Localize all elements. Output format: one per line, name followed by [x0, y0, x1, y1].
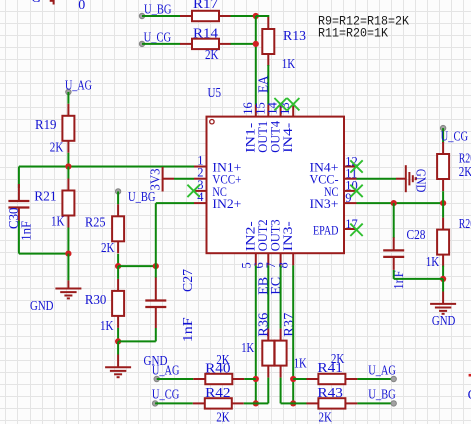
pin name IN1+: [212, 159, 241, 174]
net label 0: [78, 0, 85, 12]
label R14: [193, 25, 218, 40]
resistor R17: [180, 11, 231, 21]
pin 6 stub: [267, 253, 269, 265]
label R41: [317, 360, 343, 375]
junction node E: [440, 276, 446, 282]
wire R21 to rail: [67, 228, 69, 254]
pin number 8: [277, 262, 291, 268]
wire pin5 down: [255, 265, 257, 379]
pin name IN4+: [310, 159, 339, 174]
partial wire at right edge row1: [469, 374, 471, 377]
pin number 6: [252, 262, 266, 268]
label R19: [35, 117, 57, 132]
pin name IN3-: [280, 221, 295, 251]
wire C27 to node D row: [155, 328, 157, 341]
svg-text:R14: R14: [193, 25, 218, 40]
port U_BG right dot: [391, 401, 396, 406]
resistor R42: [193, 398, 244, 408]
wire 3V3 to pin2: [174, 178, 194, 180]
svg-text:1K: 1K: [426, 254, 440, 269]
wire pin11 to GND3: [357, 178, 397, 180]
wire node C down to R30: [117, 266, 119, 279]
pin number 4: [197, 190, 204, 204]
net label U_BG mid: [128, 189, 156, 204]
wire row pin1: [19, 166, 194, 168]
net label EC: [268, 277, 283, 295]
wire pin7 to R37: [280, 265, 282, 328]
svg-text:1K: 1K: [100, 318, 114, 333]
stem GND2: [117, 355, 119, 368]
wire pin5 col rows: [255, 379, 257, 403]
no-connect X pin 13: [287, 98, 299, 110]
wire U_CG down: [442, 128, 444, 143]
wire pin4 horizontal: [156, 202, 194, 204]
note R9=R12=R18=2K: [318, 13, 409, 28]
pin name NC: [324, 184, 339, 199]
junction pin9 C28: [391, 200, 397, 206]
svg-text:R43: R43: [317, 385, 343, 400]
port U_AG right dot: [391, 376, 396, 381]
pin number 13: [278, 102, 292, 115]
junction R19 row1: [65, 163, 71, 169]
stem GND3: [396, 178, 406, 180]
port U_CG top right dot: [440, 125, 445, 130]
resistor R41: [306, 374, 357, 384]
svg-text:2K: 2K: [205, 47, 219, 62]
net label U_AG right: [368, 362, 396, 377]
pin 15 stub: [267, 105, 269, 117]
value 2K of R14: [205, 47, 219, 62]
pin name EPAD: [313, 223, 339, 238]
pin number 11: [345, 167, 357, 181]
pin name OUT1: [255, 121, 270, 153]
wire R40 to row1 node: [244, 378, 256, 380]
value 1K of R22: [426, 254, 440, 269]
junction pin9 right: [440, 200, 446, 206]
wire pin6 to R36: [267, 265, 269, 328]
value 1K of R36: [241, 340, 254, 355]
pin name VCC+: [212, 172, 241, 187]
label GND (left): [30, 298, 54, 313]
pin number 7: [264, 262, 278, 268]
svg-text:R11=R20=1K: R11=R20=1K: [318, 25, 388, 40]
net label U_AG bottom: [152, 362, 180, 377]
pin number 2: [197, 166, 203, 180]
power port 3V3: [163, 167, 174, 192]
wire row2 left segment: [256, 402, 268, 404]
value 1nF of C28: [391, 270, 406, 289]
net label U_CG bottom: [152, 387, 180, 402]
no-connect X pin 12: [350, 160, 362, 172]
wire R30 to node D: [117, 328, 119, 342]
resistor R36: [262, 329, 274, 378]
svg-text:U_BG: U_BG: [144, 2, 172, 17]
pin 1 stub: [194, 166, 207, 168]
pin name VCC-: [310, 172, 339, 187]
port U_CG dot: [139, 41, 144, 46]
wire row2 right segment: [281, 402, 294, 404]
net label EB: [256, 277, 271, 295]
pin name OUT4: [267, 120, 282, 152]
svg-text:G: G: [31, 0, 41, 5]
value 2K of R19: [50, 139, 64, 154]
net label U_CG: [144, 29, 172, 44]
svg-text:R21: R21: [34, 188, 57, 203]
pin name IN2-: [243, 221, 258, 251]
svg-text:IN3-: IN3-: [280, 221, 295, 251]
pin number 3: [197, 178, 203, 192]
wire U_CG to R14: [142, 43, 180, 45]
label R22 clipped: [459, 216, 471, 231]
svg-text:4: 4: [197, 190, 204, 204]
capacitor C28: [383, 237, 404, 270]
partial net label (clipped at top): [31, 0, 41, 5]
wire row1 node to R41: [293, 378, 306, 380]
label R13: [283, 28, 306, 43]
ground GND4: [430, 304, 456, 314]
svg-text:2K: 2K: [459, 164, 471, 179]
value 2K of R40: [216, 352, 230, 367]
wire row2 node to R43: [293, 402, 306, 404]
svg-text:U_AG: U_AG: [65, 78, 92, 93]
svg-text:R17: R17: [193, 0, 218, 11]
svg-text:GND: GND: [432, 313, 456, 328]
resistor R40: [193, 374, 244, 384]
svg-text:2K: 2K: [331, 351, 345, 366]
svg-text:U_CG: U_CG: [152, 387, 180, 402]
label R25: [85, 214, 106, 229]
wire pin9 row to R22: [442, 203, 444, 218]
junction node C: [115, 263, 121, 269]
wire U_AG to R19: [67, 92, 69, 104]
value 1nF of C27: [180, 317, 195, 343]
resistor R25: [112, 204, 124, 253]
net label U_AG: [65, 78, 92, 93]
wire node A down to pin16: [255, 16, 257, 105]
wire U_AG to R40: [157, 378, 194, 380]
svg-text:1K: 1K: [51, 213, 65, 228]
no-connect X pin 14: [274, 98, 286, 110]
svg-text:GND: GND: [30, 298, 54, 313]
svg-text:2K: 2K: [50, 139, 64, 154]
ground GND1: [55, 289, 81, 299]
label R43: [317, 385, 343, 400]
junction row2 left: [253, 400, 259, 406]
wire node D to C27 bottom: [118, 340, 156, 342]
value 1K of R21: [51, 213, 65, 228]
value 2K clipped: [459, 164, 471, 179]
wire R17 to node: [231, 15, 256, 17]
resistor R20 (clipped): [437, 142, 449, 191]
pin name NC: [212, 184, 227, 199]
junction node C27 top: [153, 263, 159, 269]
capacitor C27: [145, 278, 166, 329]
junction row1 right: [290, 376, 296, 382]
net label U_BG right: [368, 387, 396, 402]
svg-text:1nF: 1nF: [180, 317, 195, 343]
wire bottom rail left: [19, 253, 69, 255]
no-connect X pin 3: [187, 185, 199, 197]
wire R42 to row2 node: [244, 402, 256, 404]
wire C28 bottom: [393, 270, 395, 279]
junction rail GND1: [65, 251, 71, 257]
value 1K of R37: [294, 356, 307, 371]
value 2K of R42: [216, 410, 230, 424]
svg-text:R30: R30: [85, 292, 107, 307]
wire U_BG to R25: [117, 191, 119, 204]
resistor R21: [62, 179, 74, 228]
ground GND3: [406, 165, 416, 192]
pin number 10: [345, 179, 358, 193]
label R30: [85, 292, 107, 307]
resistor R43: [306, 398, 357, 408]
wire R19 to row1: [67, 153, 69, 167]
net label U_BG: [144, 2, 172, 17]
pin number 15: [253, 102, 267, 115]
pin 10 stub: [344, 190, 357, 192]
pin 3 stub: [194, 190, 207, 192]
svg-text:9: 9: [345, 191, 351, 205]
pin number 17: [345, 217, 358, 231]
wire pin8 down: [292, 265, 294, 379]
wire row1 to R21: [67, 167, 69, 179]
svg-text:1K: 1K: [241, 340, 254, 355]
value 1K of R13: [282, 56, 296, 71]
pin 16 stub: [255, 105, 257, 117]
no-connect X pin 17 EPAD: [350, 224, 362, 236]
pin 13 stub: [292, 105, 294, 117]
wire node C to C27 col: [118, 265, 156, 267]
pin number 5: [239, 262, 253, 268]
port U_AG bottom dot: [154, 376, 159, 381]
net label EA: [256, 75, 271, 93]
wire R36 to row2: [267, 378, 269, 404]
junction node A: [253, 13, 259, 19]
label R20 clipped: [459, 151, 471, 166]
svg-text:U_CG: U_CG: [144, 29, 172, 44]
svg-text:C28: C28: [407, 227, 426, 242]
capacitor C30: [8, 184, 29, 226]
svg-text:U_AG: U_AG: [368, 362, 396, 377]
svg-text:R25: R25: [85, 214, 106, 229]
resistor R37: [275, 329, 287, 378]
resistor R22 (clipped): [437, 218, 449, 267]
label C28: [407, 227, 426, 242]
label GND (bottom right): [432, 313, 456, 328]
svg-text:2K: 2K: [216, 352, 230, 367]
svg-text:U_BG: U_BG: [368, 387, 396, 402]
pin 2 stub: [194, 178, 207, 180]
wire R43 to U_BG: [357, 402, 393, 404]
svg-text:R19: R19: [35, 117, 57, 132]
pin name IN3+: [310, 196, 339, 211]
value 2K of R25: [101, 240, 115, 255]
label GND (mid): [144, 353, 168, 368]
pin 8 stub: [292, 253, 294, 265]
partial component lead (clipped at top): [50, 0, 54, 5]
wire R13 to pin15: [267, 65, 269, 105]
port U_CG bottom dot: [152, 401, 157, 406]
svg-text:C: C: [468, 387, 471, 402]
svg-text:2K: 2K: [319, 410, 333, 424]
svg-text:R13: R13: [283, 28, 306, 43]
ground GND2: [105, 367, 131, 377]
pin number 1: [197, 154, 203, 168]
resistor R19: [62, 104, 74, 153]
svg-text:R36: R36: [256, 312, 271, 336]
wire U_BG to R17: [142, 15, 180, 17]
label R21: [34, 188, 57, 203]
pin number 12: [345, 154, 358, 168]
net label U_CG right: [441, 128, 469, 143]
pin 11 stub: [344, 178, 357, 180]
svg-text:IN4-: IN4-: [280, 123, 295, 153]
resistor R13: [262, 17, 274, 66]
port U_BG dot: [139, 13, 144, 18]
svg-text:8: 8: [277, 262, 291, 268]
label R37: [281, 312, 296, 336]
value 2K of R41: [331, 351, 345, 366]
label R40: [205, 361, 231, 376]
svg-text:U5: U5: [208, 85, 222, 100]
pin 5 stub: [255, 253, 257, 265]
svg-text:3V3: 3V3: [148, 168, 163, 190]
junction row2 right: [290, 400, 296, 406]
wire rail to GND1: [67, 254, 69, 281]
pin name IN4-: [280, 123, 295, 153]
pin 9 stub: [344, 202, 357, 204]
wire row1 down to C30: [18, 167, 20, 189]
wire C28 top: [393, 203, 395, 238]
pin 4 stub: [194, 202, 207, 204]
wire U_CG to R42: [155, 402, 193, 404]
label C27: [180, 269, 195, 292]
value 1K of R30: [100, 318, 114, 333]
label GND (right): [414, 169, 429, 193]
pin name IN2+: [212, 196, 241, 211]
stem GND4: [442, 292, 444, 304]
pin 17 stub: [344, 228, 357, 230]
label 3V3: [148, 168, 163, 190]
junction node D: [115, 338, 121, 344]
partial net label at right edge: [468, 387, 471, 402]
pin 14 stub: [280, 105, 282, 117]
svg-text:1K: 1K: [294, 356, 307, 371]
svg-text:R42: R42: [205, 385, 231, 400]
port U_AG dot: [66, 89, 71, 94]
wire node A to R13: [256, 15, 269, 17]
port U_BG mid dot: [115, 189, 120, 194]
pin 12 stub: [344, 166, 357, 168]
wire R37 to row2: [280, 378, 282, 404]
svg-text:1nF: 1nF: [19, 220, 34, 240]
wire R20 to pin9 row: [442, 191, 444, 203]
wire node D to GND2: [117, 341, 119, 354]
designator U5: [208, 85, 222, 100]
svg-text:1K: 1K: [282, 56, 296, 71]
svg-text:C27: C27: [180, 269, 195, 292]
svg-text:IN3+: IN3+: [310, 196, 339, 211]
pin name OUT3: [267, 219, 282, 251]
wire R41 to U_AG: [357, 378, 393, 380]
svg-text:U_AG: U_AG: [152, 362, 180, 377]
svg-text:2K: 2K: [101, 240, 115, 255]
svg-text:U_CG: U_CG: [441, 128, 469, 143]
resistor R30: [112, 279, 124, 328]
pin number 16: [241, 102, 255, 114]
label R36: [256, 312, 271, 336]
stem GND1: [67, 280, 69, 288]
note R11=R20=1K: [318, 25, 388, 40]
label C30: [6, 207, 21, 229]
wire R14 to node: [231, 43, 256, 45]
op-amp U5 body: [207, 117, 345, 254]
svg-text:2K: 2K: [216, 410, 230, 424]
svg-text:EA: EA: [256, 75, 271, 93]
pin name IN1-: [243, 123, 258, 153]
wire pin8 col rows: [292, 379, 294, 403]
wire R22 to node E: [442, 266, 444, 279]
svg-text:EPAD: EPAD: [313, 223, 339, 238]
wire pin4 col down: [155, 203, 157, 278]
label R42: [205, 385, 231, 400]
wire node E to GND4: [442, 279, 444, 292]
junction node B: [253, 41, 259, 47]
wire C30 to bottom rail: [18, 221, 20, 254]
svg-text:R20: R20: [459, 216, 471, 231]
pin number 9: [345, 191, 351, 205]
label R17: [193, 0, 218, 11]
resistor R14: [180, 39, 231, 49]
no-connect X pin 10: [350, 185, 362, 197]
wire C28 to node E: [394, 278, 443, 280]
pin number 14: [266, 102, 280, 115]
svg-text:GND: GND: [414, 169, 429, 193]
wire R25 to node C: [117, 254, 119, 266]
junction row1 left: [253, 376, 259, 382]
pin name OUT2: [255, 219, 270, 251]
wire pin9 row: [357, 202, 444, 204]
value 2K of R43: [319, 410, 333, 424]
pin 7 stub: [280, 253, 282, 265]
svg-text:IN2+: IN2+: [212, 196, 241, 211]
value 1nF of C30: [19, 220, 34, 240]
svg-text:0: 0: [78, 0, 85, 12]
